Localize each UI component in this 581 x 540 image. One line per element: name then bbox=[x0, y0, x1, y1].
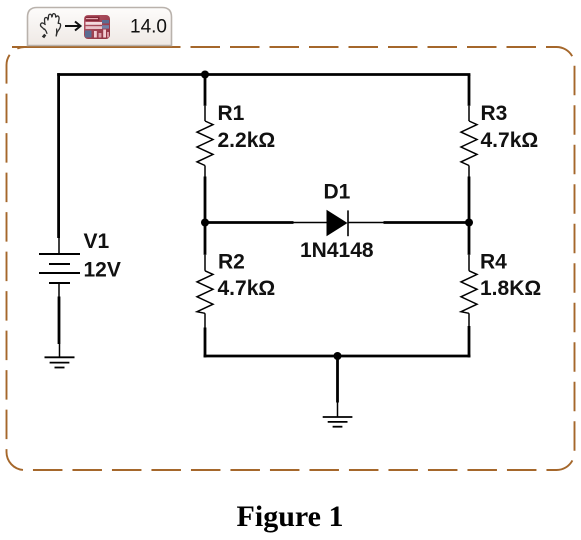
svg-text:1.8KΩ: 1.8KΩ bbox=[480, 277, 541, 300]
svg-text:14.0: 14.0 bbox=[130, 16, 167, 37]
ground (left, battery) bbox=[45, 344, 75, 368]
svg-text:R1: R1 bbox=[218, 102, 245, 125]
svg-text:D1: D1 bbox=[324, 181, 351, 204]
wire: middle row left (node to diode) bbox=[205, 221, 294, 224]
resistor R1 bbox=[197, 75, 213, 223]
wire: left vertical lower (V1 to ground) bbox=[58, 297, 61, 345]
svg-text:4.7kΩ: 4.7kΩ bbox=[218, 277, 276, 300]
junction node (bottom, ground) bbox=[334, 352, 342, 360]
dashed selection border bbox=[7, 47, 575, 470]
junction node (middle right) bbox=[465, 219, 473, 227]
svg-text:V1: V1 bbox=[84, 230, 110, 253]
svg-text:R2: R2 bbox=[218, 251, 245, 274]
svg-text:R4: R4 bbox=[480, 251, 507, 274]
arrow icon bbox=[65, 22, 81, 31]
resistor R3 bbox=[461, 75, 477, 223]
svg-text:Figure 1: Figure 1 bbox=[237, 500, 344, 533]
svg-text:12V: 12V bbox=[84, 258, 121, 281]
svg-text:1N4148: 1N4148 bbox=[300, 239, 374, 262]
ground (bottom, center) bbox=[323, 403, 353, 427]
solid border segment under tab bbox=[12, 46, 172, 48]
wire: bottom horizontal bbox=[204, 355, 471, 358]
junction node (top, R1) bbox=[201, 71, 209, 79]
junction node (middle left) bbox=[201, 219, 209, 227]
Multisim application icon bbox=[84, 15, 110, 39]
wire: ground stem bbox=[336, 356, 339, 403]
resistor R4 bbox=[461, 223, 477, 358]
svg-text:2.2kΩ: 2.2kΩ bbox=[218, 129, 276, 152]
diode D1 bbox=[294, 210, 384, 237]
wire: middle row right (diode to node) bbox=[384, 221, 470, 224]
wire: left vertical upper (V1 top lead) bbox=[57, 73, 60, 238]
hand cursor icon bbox=[40, 14, 60, 39]
resistor R2 bbox=[197, 223, 213, 358]
svg-text:R3: R3 bbox=[481, 102, 508, 125]
svg-text:4.7kΩ: 4.7kΩ bbox=[481, 129, 539, 152]
wire: top horizontal bbox=[57, 73, 470, 76]
tab panel bbox=[28, 8, 172, 46]
battery V1 bbox=[39, 238, 80, 297]
